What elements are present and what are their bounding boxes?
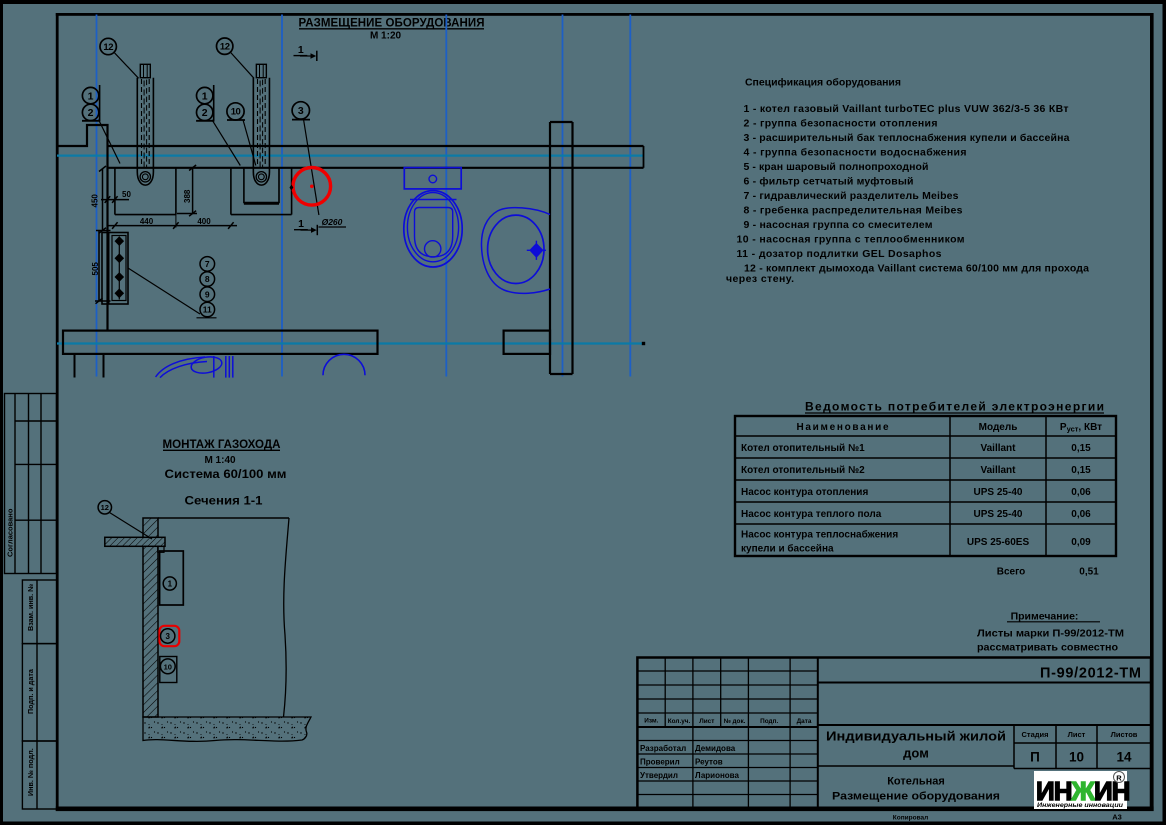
svg-text:Система 60/100 мм: Система 60/100 мм [165,469,287,481]
flue stack 2 (item 12) [253,64,269,185]
wall stubs below [74,354,76,378]
svg-text:Насос контура теплого пола: Насос контура теплого пола [741,509,882,520]
svg-text:10: 10 [231,107,241,118]
svg-text:Взам. инв. №: Взам. инв. № [26,584,35,631]
svg-text:Подп. и дата: Подп. и дата [26,668,35,714]
object name cell [818,765,1014,767]
svg-text:Лист: Лист [699,718,714,725]
svg-text:1 - котел газовый Vaillant tur: 1 - котел газовый Vaillant turboTEC plus… [744,103,1069,115]
leader 10 [243,120,256,166]
svg-text:12: 12 [101,503,109,512]
svg-text:Насос контура теплоснабжения: Насос контура теплоснабжения [741,529,898,541]
svg-text:Модель: Модель [979,422,1018,433]
svg-text:Примечание:: Примечание: [1011,611,1079,623]
signature rows [640,744,739,780]
svg-text:Лист: Лист [1068,730,1086,739]
label circle 12 first [100,38,116,54]
svg-text:R: R [1116,773,1122,782]
svg-text:8 - гребенка распределительная: 8 - гребенка распределительная Meibes [744,205,963,217]
svg-text:7 - гидравлический разделитель: 7 - гидравлический разделитель Meibes [744,190,959,202]
section wall hatched [143,518,158,717]
svg-text:12: 12 [103,42,113,53]
label circle 12 with leader [98,501,111,514]
svg-text:UPS 25-40: UPS 25-40 [974,509,1023,520]
svg-text:3: 3 [165,632,170,641]
header labels izm..data [644,718,812,726]
svg-text:0,15: 0,15 [1071,465,1091,476]
svg-text:Размещение оборудования: Размещение оборудования [832,791,1000,803]
leader left pair [99,120,121,164]
svg-text:Разработал: Разработал [640,744,686,753]
svg-text:Всего: Всего [997,567,1026,578]
svg-text:50: 50 [122,190,131,199]
svg-text:8: 8 [205,274,210,284]
label circle 3 [292,102,309,119]
svg-text:А3: А3 [1112,813,1122,822]
svg-text:10: 10 [164,662,172,671]
svg-text:9 - насосная группа со смесите: 9 - насосная группа со смесителем [744,219,933,231]
svg-text:Инв. № подл.: Инв. № подл. [26,748,35,796]
svg-text:Утвердил: Утвердил [640,771,678,780]
svg-text:9: 9 [205,289,210,299]
svg-text:Листы марки П-99/2012-ТМ: Листы марки П-99/2012-ТМ [977,628,1124,640]
boiler (item 1) [160,551,184,605]
svg-text:Котел отопительный №1: Котел отопительный №1 [741,443,865,454]
bathtub corner (lower room, cut off) [156,355,233,378]
label circle 12 second [217,38,233,54]
svg-text:Насос контура отопления: Насос контура отопления [741,487,868,498]
svg-text:10 - насосная группа с теплооб: 10 - насосная группа с теплообменником [737,234,965,246]
svg-text:М 1:20: М 1:20 [370,31,402,42]
svg-text:388: 388 [183,189,192,203]
left attribute strip: soglasovano block [5,394,57,574]
dimension 50 [101,196,129,203]
toilet [404,168,462,267]
svg-text:М 1:40: М 1:40 [204,455,236,466]
break line [284,518,290,717]
red circle (flue wall opening) [293,168,331,206]
svg-text:П: П [1030,750,1040,765]
svg-text:14: 14 [1116,750,1132,765]
svg-text:Изм.: Изм. [644,718,658,725]
sink [481,208,550,294]
svg-text:Ведомость потребителей электро: Ведомость потребителей электроэнергии [805,400,1104,414]
leader middle pair [212,120,240,166]
svg-text:Ларионова: Ларионова [695,771,739,780]
dimension 388 [177,165,197,216]
svg-text:450: 450 [91,194,100,208]
leader 3 through red circle [304,119,319,215]
red highlight box with circle 3 [160,626,180,646]
ceiling line [158,517,289,519]
label circles 1,2 middle pair [197,87,213,120]
svg-text:0,06: 0,06 [1071,487,1091,498]
svg-text:5 - кран шаровый полнопроходно: 5 - кран шаровый полнопроходной [744,161,929,173]
svg-text:Ø260: Ø260 [322,217,343,227]
axis grid: vertical axes [97,15,631,377]
left grid rows [637,671,817,795]
svg-text:2: 2 [88,107,94,119]
dimension 440 and 400 [108,222,237,229]
top wall end cap [643,146,645,168]
item circles 7 8 9 11 [200,257,215,317]
svg-text:Копировал: Копировал [893,815,928,822]
svg-text:400: 400 [197,217,211,226]
top wall inner edge [108,167,644,169]
dimension 505 [95,231,111,304]
svg-text:дом: дом [903,746,929,761]
svg-text:Vaillant: Vaillant [980,443,1016,454]
axis grid: horizontal axes [57,156,644,344]
svg-text:Котельная: Котельная [887,776,945,788]
svg-text:12: 12 [220,42,230,53]
svg-text:UPS 25-60ES: UPS 25-60ES [967,537,1030,548]
svg-text:1: 1 [202,90,208,102]
top wall outer edge + pilaster [58,125,108,331]
svg-text:Pуст, КВт: Pуст, КВт [1060,422,1102,434]
equipment boxes under top wall [115,168,292,215]
svg-text:11: 11 [203,305,212,315]
svg-text:П-99/2012-ТМ: П-99/2012-ТМ [1040,666,1141,682]
outer page border [0,0,1166,4]
axis end dot [642,342,645,345]
vzam inv box [22,580,57,644]
inv nom podl box [22,741,57,809]
svg-text:1: 1 [298,218,304,230]
svg-text:Проверил: Проверил [640,758,680,767]
svg-text:РАЗМЕЩЕНИЕ ОБОРУДОВАНИЯ: РАЗМЕЩЕНИЕ ОБОРУДОВАНИЯ [299,18,485,30]
svg-text:0,09: 0,09 [1071,537,1091,548]
svg-text:0,51: 0,51 [1079,567,1099,578]
podp i data box [22,644,57,741]
bottom wall band [63,331,378,354]
svg-text:1: 1 [88,90,94,102]
svg-text:МОНТАЖ ГАЗОХОДА: МОНТАЖ ГАЗОХОДА [163,439,281,451]
svg-text:440: 440 [140,217,154,226]
svg-text:Реутов: Реутов [695,758,723,767]
manifold (items 7-11) [102,233,128,305]
main drawing frame [56,13,59,811]
svg-text:Инженерные инновации: Инженерные инновации [1037,802,1124,809]
svg-text:Индивидуальный жилой: Индивидуальный жилой [826,729,1006,744]
svg-text:Дата: Дата [797,718,812,725]
dimension 450 [96,166,111,233]
svg-text:11 - дозатор подлитки GEL Dosa: 11 - дозатор подлитки GEL Dosaphos [737,248,942,260]
door swing arc [323,354,365,375]
horizontal flue pipe (item 12) [105,537,165,546]
svg-text:1: 1 [168,580,173,589]
document number cell [818,682,1151,684]
left grid columns [665,658,790,810]
label circles 1,2 left pair [82,87,98,120]
svg-text:505: 505 [91,262,100,276]
svg-text:12 - комплект дымохода Vaillan: 12 - комплект дымохода Vaillant система … [744,263,1089,275]
bathroom partition wall [550,122,573,374]
svg-text:6 - фильтр сетчатый муфтовый: 6 - фильтр сетчатый муфтовый [744,176,914,188]
svg-text:Vaillant: Vaillant [980,465,1016,476]
svg-text:3: 3 [298,105,304,117]
svg-text:2: 2 [202,107,208,119]
svg-text:UPS 25-40: UPS 25-40 [974,487,1023,498]
svg-text:10: 10 [1069,750,1084,765]
svg-text:2 - группа безопасности отопле: 2 - группа безопасности отопления [744,118,938,130]
svg-text:Стадия: Стадия [1021,730,1048,739]
svg-text:3 - расширительный бак теплосн: 3 - расширительный бак теплоснабжения ку… [744,132,1070,144]
svg-text:Спецификация оборудования: Спецификация оборудования [745,77,901,89]
stadia list listov [1014,725,1151,769]
svg-text:0,06: 0,06 [1071,509,1091,520]
svg-text:Демидова: Демидова [695,744,736,753]
svg-text:через стену.: через стену. [726,273,794,285]
leader manifold to item 11 [128,268,200,314]
niche for flue 2 [244,168,279,204]
svg-text:Сечения 1-1: Сечения 1-1 [185,496,264,508]
svg-text:7: 7 [205,259,210,269]
box with circle 10 [160,657,177,683]
svg-text:Наименование: Наименование [797,422,889,433]
svg-text:купели и бассейна: купели и бассейна [741,543,834,555]
floor slab with stipple [143,717,311,741]
small black diamond at wall edge [290,185,294,191]
label circle 10 [227,103,244,120]
flue stack 1 (item 12) [137,64,153,185]
svg-text:1: 1 [298,44,304,56]
svg-text:Листов: Листов [1111,730,1138,739]
svg-text:4 - группа безопасности водосн: 4 - группа безопасности водоснабжения [744,147,967,159]
wall piece near bathroom [504,331,550,354]
svg-text:рассматривать совместно: рассматривать совместно [977,642,1118,654]
svg-text:0,15: 0,15 [1071,443,1091,454]
svg-text:№ док.: № док. [724,718,746,725]
svg-text:Подп.: Подп. [760,718,778,725]
svg-text:Котел отопительный №2: Котел отопительный №2 [741,465,865,476]
svg-text:Согласовано: Согласовано [6,508,15,557]
svg-text:Кол.уч.: Кол.уч. [668,718,691,725]
logo [1034,771,1127,809]
